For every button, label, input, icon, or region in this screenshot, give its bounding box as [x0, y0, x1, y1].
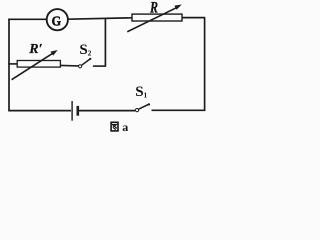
top-right wire	[182, 17, 205, 19]
svg-text:2: 2	[88, 49, 92, 58]
right wire	[204, 18, 206, 111]
svg-text:a: a	[122, 120, 128, 134]
resistor R box	[132, 14, 182, 21]
battery short plate	[77, 106, 80, 116]
bottom wire left	[8, 110, 71, 112]
caption glyph 图	[111, 122, 118, 131]
switch S2	[79, 58, 92, 68]
branch wire	[60, 64, 78, 67]
top-middle wire	[68, 18, 133, 19]
branch wire right	[93, 65, 106, 67]
bottom wire middle	[78, 110, 135, 112]
left wire	[8, 19, 10, 111]
svg-text:S: S	[135, 84, 143, 100]
top-left wire	[8, 18, 46, 20]
resistor R arrow	[127, 5, 182, 32]
svg-text:S: S	[79, 42, 87, 58]
branch vertical wire	[104, 18, 106, 66]
svg-text:R: R	[149, 0, 158, 17]
rheostat R' box	[17, 61, 60, 68]
battery long plate	[71, 101, 73, 121]
svg-text:R′: R′	[28, 42, 42, 57]
svg-text:1: 1	[144, 91, 148, 100]
switch S1	[135, 103, 150, 111]
galvanometer G	[47, 9, 68, 30]
svg-text:G: G	[52, 14, 61, 29]
branch stub wire	[8, 63, 17, 65]
bottom wire right	[152, 109, 206, 111]
rheostat R' arrow	[12, 50, 58, 80]
